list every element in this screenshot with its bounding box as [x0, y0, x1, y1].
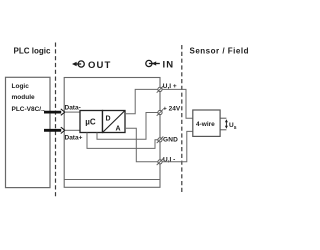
svg-text:Logic: Logic — [12, 83, 30, 90]
svg-text:U,I -: U,I - — [163, 157, 175, 164]
svg-text:s: s — [234, 125, 237, 131]
svg-text:PLC-V8C/..: PLC-V8C/.. — [12, 106, 45, 113]
Data+ wire — [65, 129, 80, 131]
logic module box — [6, 77, 51, 187]
Data- arrowhead — [61, 109, 65, 115]
wire D/A to U,I- terminal — [125, 128, 158, 162]
svg-text:IN: IN — [163, 59, 175, 70]
wire U,I+ to 4-wire device — [162, 89, 193, 118]
svg-text:Data+: Data+ — [65, 135, 83, 142]
inner bottom rail of module box — [64, 179, 160, 181]
svg-text:GND: GND — [163, 137, 178, 144]
wire U,I- to 4-wire device — [162, 131, 193, 161]
microcontroller uC box — [80, 111, 103, 133]
zone separator dashed line right — [181, 45, 183, 193]
svg-text:Sensor / Field: Sensor / Field — [190, 46, 249, 55]
svg-text:PLC logic: PLC logic — [14, 46, 51, 55]
sensor supply stub bottom — [220, 129, 226, 131]
OUT direction symbol — [72, 61, 84, 67]
svg-text:module: module — [12, 94, 35, 101]
Data- wire — [65, 111, 80, 113]
svg-text:4-wire: 4-wire — [196, 121, 215, 128]
svg-text:µC: µC — [85, 117, 96, 126]
svg-text:OUT: OUT — [88, 60, 111, 71]
wire GND to uC — [87, 133, 158, 149]
wire D/A to U,I+ terminal — [125, 89, 158, 113]
extension module box — [64, 78, 160, 188]
svg-text:D: D — [106, 116, 111, 123]
terminal U,I+ — [157, 86, 164, 93]
svg-text:+ 24V: + 24V — [163, 106, 181, 113]
D/A diagonal — [103, 111, 126, 133]
terminal +24V — [157, 109, 164, 116]
sensor supply stub top — [220, 117, 226, 119]
wire +24V supply to uC — [97, 113, 158, 140]
Data- bus bar (thick) — [44, 111, 61, 114]
Data+ arrowhead — [61, 127, 65, 133]
D/A converter box U — [103, 111, 126, 133]
zone separator dashed line left — [55, 43, 57, 198]
terminal U,I- — [157, 159, 164, 166]
terminal GND — [157, 137, 164, 144]
svg-text:A: A — [116, 126, 121, 133]
4-wire sensor box — [193, 110, 220, 136]
svg-text:Data-: Data- — [65, 104, 81, 111]
Data+ bus bar (thick) — [44, 129, 61, 132]
IN direction symbol — [146, 60, 160, 66]
Us voltage arrow — [225, 119, 228, 128]
